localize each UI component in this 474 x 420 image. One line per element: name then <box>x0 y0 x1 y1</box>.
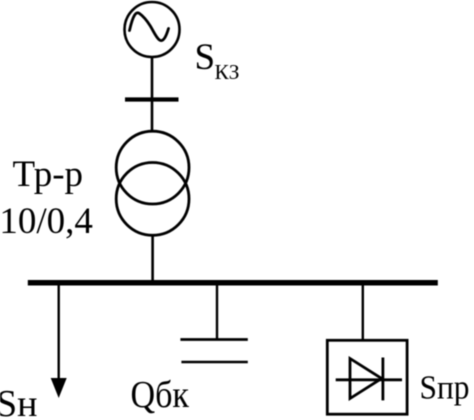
wire source to breaker <box>151 57 154 98</box>
label Sкз <box>195 37 240 84</box>
capacitor Qбк bottom plate <box>181 361 247 364</box>
wire busbar to capacitor <box>216 285 218 339</box>
AC source G1 <box>125 2 180 57</box>
load arrow head <box>51 378 67 398</box>
capacitor Qбк top plate <box>180 338 247 341</box>
diode triangle <box>350 359 382 399</box>
wire busbar to load arrow <box>58 285 60 382</box>
transformer T1 primary winding <box>116 131 189 204</box>
wire breaker to transformer <box>151 99 154 132</box>
svg-text:Тр-р: Тр-р <box>13 154 84 195</box>
svg-text:S: S <box>195 37 216 78</box>
svg-text:КЗ: КЗ <box>215 60 240 84</box>
wire transformer to busbar <box>151 235 154 281</box>
svg-text:Sн: Sн <box>0 383 37 420</box>
svg-text:Sпр: Sпр <box>420 370 470 407</box>
busbar <box>28 280 438 286</box>
breaker bar <box>125 97 179 101</box>
wire busbar to converter <box>362 285 364 340</box>
converter box <box>327 340 407 414</box>
diode cathode bar <box>381 358 384 401</box>
transformer T1 secondary winding <box>116 163 189 236</box>
svg-text:Qбк: Qбк <box>131 374 190 416</box>
label Тр-р 10/0,4 <box>0 154 93 242</box>
diode anode line <box>336 378 402 381</box>
svg-text:10/0,4: 10/0,4 <box>0 201 93 242</box>
